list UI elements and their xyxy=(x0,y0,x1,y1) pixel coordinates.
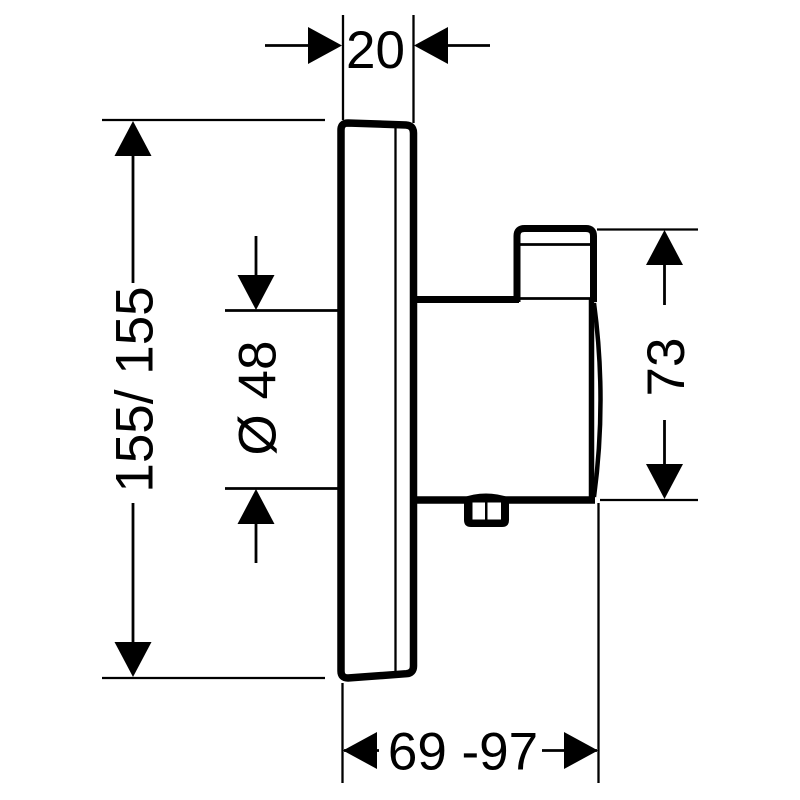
dim 155/155: up arrow xyxy=(115,121,152,156)
dim d48: up arrow xyxy=(238,489,275,524)
knob outline xyxy=(517,229,594,303)
valve body top edge thin (behind knob) xyxy=(517,297,592,300)
svg-text:20: 20 xyxy=(346,21,405,80)
dim d48: bottom tick xyxy=(225,487,338,490)
dim 20: right extension line xyxy=(412,15,414,123)
dim 20: right arrow xyxy=(414,27,448,64)
dim 73: up arrow xyxy=(646,230,683,265)
dim 155/155: lower shaft xyxy=(132,503,135,644)
dim 69-97: left arrow xyxy=(343,732,377,769)
nub window right xyxy=(488,503,502,520)
valve body bottom edge xyxy=(411,496,596,504)
dim d48: top tick xyxy=(225,309,338,312)
svg-text:155/ 155: 155/ 155 xyxy=(106,286,165,492)
dim 69-97: dimension line xyxy=(344,749,597,752)
dim 155/155: down arrow xyxy=(115,642,152,677)
dim 20: left arrow xyxy=(308,27,342,64)
svg-text:Ø 48: Ø 48 xyxy=(228,341,287,456)
dim 73: down arrow xyxy=(646,464,683,499)
svg-text:73: 73 xyxy=(637,338,696,397)
dim d48: lower shaft xyxy=(255,523,258,563)
dim 20: left leader xyxy=(265,44,310,47)
valve body top edge thick xyxy=(411,296,520,303)
bottom nub xyxy=(464,497,509,527)
dim 73: upper shaft xyxy=(663,264,666,305)
dim 155/155: upper shaft xyxy=(132,155,135,283)
dim d48: upper shaft xyxy=(255,236,258,278)
knob cap line xyxy=(519,243,592,246)
bump over nub xyxy=(462,496,510,501)
plate inner face line xyxy=(394,127,396,676)
dim 20: left extension line xyxy=(342,15,344,120)
valve body silhouette bulge xyxy=(594,303,601,497)
dim 69-97: right extension line xyxy=(597,503,599,783)
dim 155/155: bottom extension line xyxy=(102,677,325,679)
dim 69-97: label backing xyxy=(379,726,542,774)
dim d48: down arrow xyxy=(238,275,275,310)
dim 69-97: left extension line xyxy=(341,683,343,783)
svg-text:69 -97: 69 -97 xyxy=(388,722,538,781)
dim 73: lower shaft xyxy=(663,420,666,466)
dim 73: bottom extension line xyxy=(600,499,698,501)
dim 155/155: top extension line xyxy=(102,119,325,121)
dim 20: right leader xyxy=(446,44,490,47)
valve body right edge xyxy=(589,299,595,500)
dim 69-97: right arrow xyxy=(564,732,598,769)
wall plate outline xyxy=(341,123,414,678)
dim 73: top extension line xyxy=(597,228,698,230)
nub window left xyxy=(473,503,486,520)
